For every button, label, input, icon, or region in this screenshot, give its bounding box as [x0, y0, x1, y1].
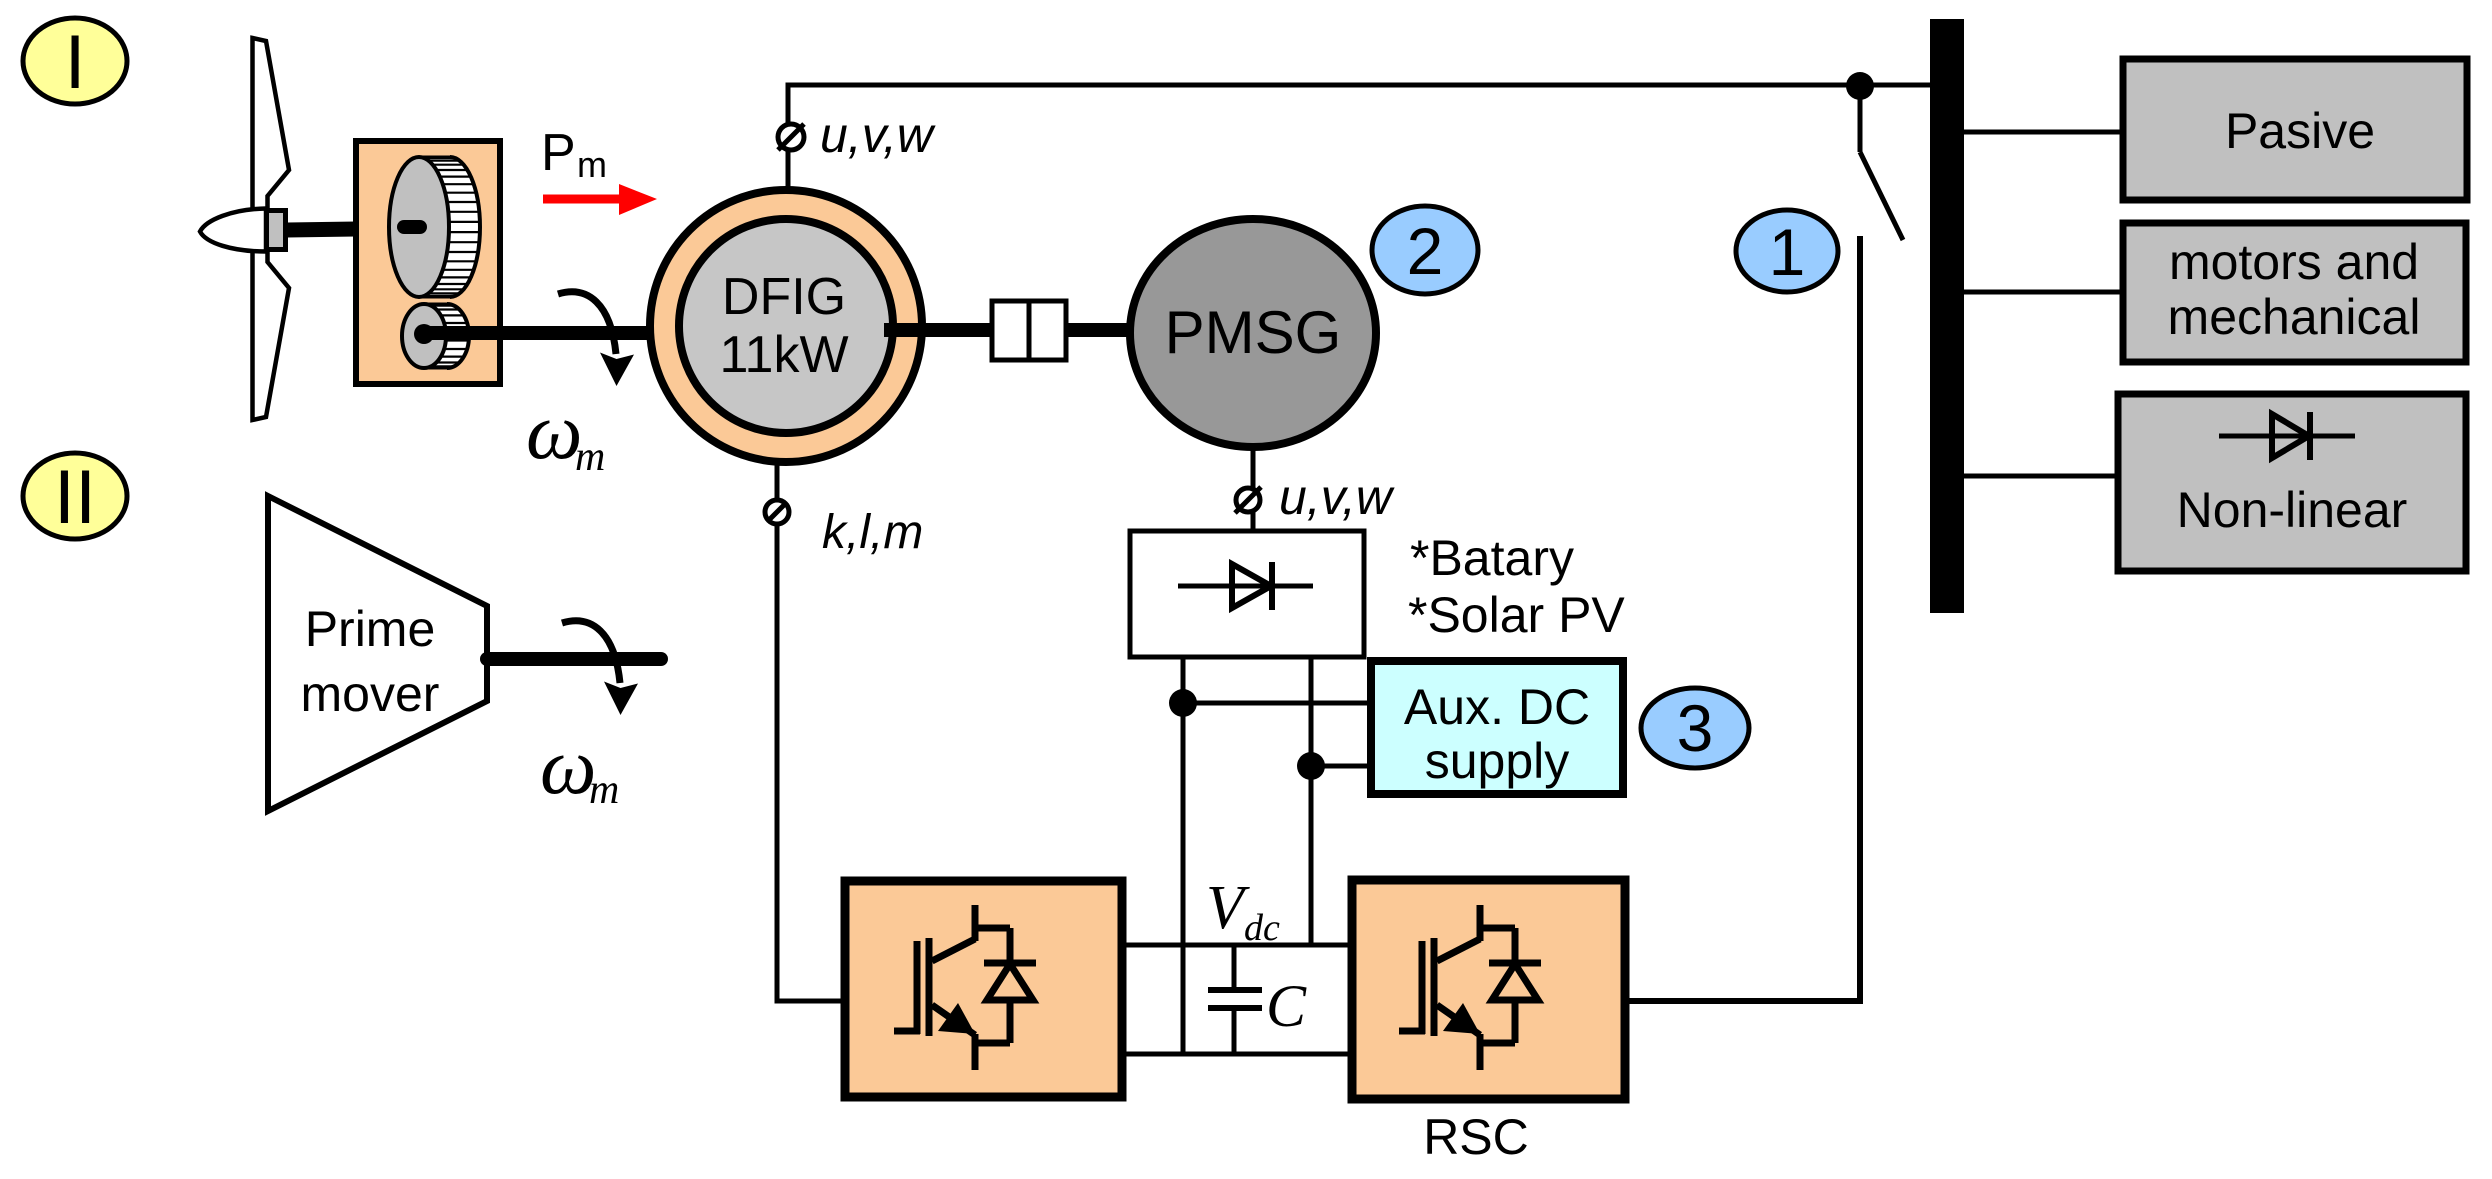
wire bus to Pasive load — [1964, 130, 2124, 135]
turbine hub cone — [200, 209, 266, 252]
svg-text:ω: ω — [526, 388, 582, 476]
rotation arrow at prime mover shaft — [562, 621, 638, 715]
wire rectifier right output to DC link top — [1309, 657, 1314, 945]
node label 2 — [1372, 206, 1478, 294]
wind turbine blades — [253, 38, 290, 420]
rectifier box — [1130, 531, 1364, 657]
label omega_m at DFIG shaft — [526, 388, 605, 480]
wire bus to motors load — [1964, 290, 2124, 295]
red arrow Pm direction — [543, 184, 657, 215]
rotation arrow at DFIG shaft — [558, 292, 634, 386]
PMSG machine — [1130, 219, 1376, 447]
wire PMSG to rectifier — [1251, 447, 1256, 533]
phase mark on PMSG wire — [1236, 488, 1260, 512]
svg-text:k,l,m: k,l,m — [822, 506, 923, 559]
Non-linear load box — [2118, 394, 2466, 571]
wire DFIG stator to grid bus (top) — [788, 85, 1930, 190]
gearbox housing — [356, 141, 500, 384]
svg-text:I: I — [64, 20, 85, 105]
node label 3 — [1641, 688, 1749, 768]
svg-text:*Solar PV: *Solar PV — [1408, 587, 1625, 643]
label motors and mechanical — [2168, 234, 2421, 345]
svg-text:PMSG: PMSG — [1165, 299, 1342, 366]
grid bus bar — [1930, 19, 1964, 613]
prime mover shaft — [487, 652, 661, 666]
DC link bottom rail — [1122, 1052, 1352, 1057]
svg-text:DFIG: DFIG — [722, 268, 846, 326]
RSC IGBT symbol — [1399, 905, 1541, 1070]
label Aux. DC supply — [1404, 679, 1590, 789]
DFIG machine (inner circle) — [679, 219, 893, 433]
high-speed shaft to DFIG — [430, 326, 688, 340]
svg-text:*Batary: *Batary — [1410, 530, 1574, 586]
junction dot at grid bus tap — [1846, 72, 1874, 100]
svg-text:m: m — [577, 144, 607, 185]
node label 1 — [1736, 210, 1838, 292]
svg-text:ω: ω — [540, 723, 596, 811]
wire junction to Aux DC supply (lower) — [1311, 764, 1373, 769]
DC link top rail — [1122, 943, 1352, 948]
capacitor C — [1208, 945, 1262, 1054]
turbine hub collar — [267, 211, 286, 250]
phase mark on rotor wire — [765, 500, 789, 524]
junction dot (left DC) — [1169, 689, 1197, 717]
svg-text:C: C — [1266, 973, 1307, 1039]
svg-text:P: P — [541, 124, 576, 182]
svg-text:u,v,w: u,v,w — [820, 107, 936, 163]
svg-text:11kW: 11kW — [719, 326, 848, 384]
wire RSC output to switch — [1625, 236, 1860, 1001]
svg-text:m: m — [575, 434, 605, 480]
phase mark on stator wire — [778, 124, 804, 150]
shaft DFIG to coupling — [884, 323, 995, 337]
GSC converter box — [845, 881, 1122, 1097]
Prime mover body — [268, 496, 487, 811]
svg-text:Non-linear: Non-linear — [2177, 482, 2408, 538]
wire bus to Non-linear load — [1964, 474, 2119, 479]
svg-text:dc: dc — [1244, 907, 1280, 949]
node label II (operation mode II) — [23, 453, 127, 540]
label Prime mover — [301, 601, 440, 722]
label Pm (mechanical power) — [541, 124, 607, 185]
wire DFIG rotor down to GSC — [777, 461, 848, 1001]
Pasive load box — [2123, 59, 2467, 200]
svg-text:Prime: Prime — [305, 601, 436, 657]
diode symbol in Non-linear box — [2219, 412, 2355, 460]
wire rectifier left output to DC link bottom — [1181, 657, 1186, 1054]
svg-text:2: 2 — [1407, 214, 1444, 288]
small gear hub dot — [414, 324, 434, 344]
node label I (operation mode I) — [23, 18, 127, 105]
label omega_m at prime mover — [540, 723, 619, 813]
gearbox large gear — [419, 157, 450, 297]
svg-text:motors and: motors and — [2169, 234, 2419, 290]
GSC IGBT symbol — [894, 905, 1036, 1070]
low-speed shaft — [287, 228, 421, 230]
shaft coupling to PMSG — [1066, 323, 1140, 337]
svg-text:m: m — [589, 767, 619, 813]
svg-text:mover: mover — [301, 666, 440, 722]
wire junction to Aux DC supply (upper) — [1183, 701, 1373, 706]
disconnect switch — [1860, 92, 1903, 240]
svg-text:supply: supply — [1425, 733, 1570, 789]
svg-text:3: 3 — [1677, 691, 1714, 765]
DFIG machine (outer ring) — [650, 190, 922, 462]
label Vdc — [1206, 874, 1280, 949]
gearbox small gear — [424, 304, 447, 368]
Aux. DC supply box — [1371, 661, 1623, 794]
svg-text:Aux. DC: Aux. DC — [1404, 679, 1590, 735]
RSC converter box — [1352, 880, 1625, 1099]
svg-text:II: II — [54, 455, 96, 540]
svg-text:1: 1 — [1769, 215, 1806, 289]
rectifier diode symbol — [1178, 562, 1313, 610]
svg-text:u,v,w: u,v,w — [1279, 469, 1395, 525]
svg-text:Pasive: Pasive — [2225, 103, 2375, 159]
motors and mechanical load box — [2123, 223, 2466, 362]
junction dot (right DC) — [1297, 752, 1325, 780]
shaft end at large gear — [404, 220, 420, 234]
svg-text:RSC: RSC — [1423, 1109, 1529, 1165]
svg-text:mechanical: mechanical — [2168, 289, 2421, 345]
shaft coupling — [992, 301, 1066, 360]
label DFIG 11kW — [719, 268, 848, 384]
